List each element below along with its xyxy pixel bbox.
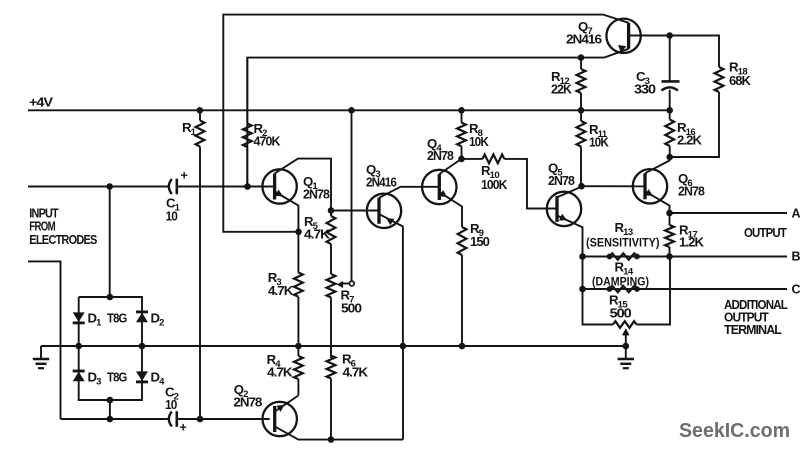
svg-text:+: + [180, 421, 187, 435]
wire R8 top [461, 110, 463, 122]
wire +4V rail [28, 109, 670, 111]
node R9 bottom [459, 343, 466, 350]
node R3-R4 junction [295, 343, 302, 350]
wire Q3 base [331, 210, 379, 212]
wire Q3 collector [379, 187, 439, 198]
wire Q7 collector [603, 15, 628, 23]
svg-text:2.2K: 2.2K [677, 134, 702, 148]
wire R18 bottom [670, 92, 719, 157]
wire R7 bottom to R6 [330, 298, 332, 359]
label R3 [268, 270, 294, 298]
svg-text:2N416: 2N416 [566, 33, 602, 47]
resistor R18 [715, 67, 724, 92]
node Q2 emitter return [400, 343, 407, 350]
node output B junction [666, 253, 673, 260]
svg-text:2N78: 2N78 [678, 185, 705, 199]
label R1 [182, 120, 197, 138]
svg-text:2N78: 2N78 [548, 174, 575, 188]
label Q2 [233, 382, 262, 409]
wire Q3 emitter [379, 214, 403, 346]
wire R4 tails [297, 346, 299, 396]
label R12 [551, 69, 572, 97]
resistor R6 [327, 356, 336, 379]
node C left junction [579, 286, 586, 293]
label INPUT FROM ELECTRODES [29, 207, 97, 247]
arrow Q4 emitter [439, 190, 447, 197]
capacitor C2 [169, 411, 177, 427]
wire output C [583, 288, 788, 290]
label D3 value [107, 371, 127, 385]
node bridge top [107, 294, 114, 301]
svg-text:68K: 68K [729, 74, 751, 88]
node C2-R1 junction [197, 416, 204, 423]
svg-text:150: 150 [470, 235, 490, 249]
label Q3 [366, 162, 397, 190]
svg-text:470K: 470K [254, 135, 281, 149]
label R2 [254, 121, 281, 149]
node R7 wiper top [348, 107, 355, 114]
node bridge bottom [107, 397, 114, 404]
label B [792, 250, 800, 264]
resistor R8 [457, 123, 466, 147]
wire R10 left [462, 158, 483, 160]
diode D2 [136, 312, 148, 322]
label D4 [151, 370, 166, 388]
resistor R3 [294, 273, 303, 297]
node C3 bottom rail [666, 107, 673, 114]
node bridge left mid [75, 343, 82, 350]
label R13 [615, 220, 633, 238]
wire Q1 collector [275, 159, 331, 211]
wire Q4 collector [439, 159, 461, 174]
resistor R13 [610, 253, 638, 259]
potentiometer R7 [327, 274, 336, 298]
svg-text:500: 500 [341, 302, 362, 316]
resistor R5 [327, 216, 336, 244]
label R9 [470, 221, 490, 249]
node R15 ground tap [623, 343, 630, 350]
label Q1 [303, 174, 330, 202]
svg-text:10K: 10K [589, 136, 609, 150]
svg-text:2N78: 2N78 [233, 395, 262, 409]
wire Q6 emitter [645, 191, 670, 213]
label +4V [29, 96, 54, 110]
wire second feedback (Q7 emitter to R2) [247, 58, 604, 185]
label C [792, 283, 800, 297]
svg-text:(SENSITIVITY): (SENSITIVITY) [586, 236, 660, 250]
capacitor C3 [662, 36, 680, 111]
resistor R14 [610, 286, 638, 292]
resistor R4 [294, 356, 303, 379]
label ADDITIONAL OUTPUT TERMINAL [724, 298, 788, 337]
wire R15 left leg [583, 257, 614, 325]
wire top feedback (Q7 collector to Q1 emitter column) [223, 15, 603, 232]
label R15 [609, 293, 632, 321]
label R6 [342, 352, 368, 380]
arrow Q5 emitter [559, 214, 567, 221]
label R10 [481, 163, 507, 192]
svg-text:INPUT: INPUT [29, 207, 59, 221]
node R12 bottom rail [578, 107, 585, 114]
wire bridge bottom tap [109, 400, 111, 419]
wire R9 bottom [461, 255, 463, 346]
wire Q1 emitter [275, 192, 299, 232]
node R6 bottom [328, 436, 335, 443]
wire electrode stub to bottom [28, 261, 61, 419]
wire R12 bottom [580, 93, 582, 110]
wire R16 top [669, 110, 671, 119]
label C2 plus [180, 421, 187, 435]
wire Q2 emitter [275, 426, 404, 439]
svg-text:T8G: T8G [107, 371, 127, 385]
wire Q2 emitter return [402, 346, 404, 440]
wire R7 wiper to +4V [351, 110, 353, 280]
svg-text:A: A [792, 207, 800, 221]
svg-text:1.2K: 1.2K [679, 235, 704, 249]
svg-text:FROM: FROM [29, 220, 55, 234]
diode D1 [73, 312, 85, 323]
node input junction [106, 183, 113, 190]
svg-text:2N416: 2N416 [366, 176, 397, 190]
watermark SeekIC.com [679, 419, 790, 442]
wire R16 bottom [669, 146, 671, 157]
wire R5 column [330, 211, 332, 275]
node bridge bottom tap joint [107, 416, 114, 423]
svg-text:T8G: T8G [107, 312, 127, 326]
wire Q6 collector [645, 157, 670, 173]
svg-text:4.7K: 4.7K [304, 228, 330, 242]
transistor Q1 [262, 169, 296, 203]
svg-text:330: 330 [634, 83, 656, 97]
svg-text:100K: 100K [481, 178, 507, 192]
node Q1 emitter junction [295, 229, 302, 236]
ground right [618, 346, 634, 368]
wire R1 column [199, 110, 201, 419]
resistor R15 [613, 321, 637, 328]
label D1 [88, 311, 103, 329]
svg-text:TERMINAL: TERMINAL [724, 323, 782, 337]
svg-text:SeekIC.com: SeekIC.com [679, 419, 790, 442]
svg-text:10: 10 [165, 398, 177, 412]
label SENSITIVITY [586, 236, 660, 250]
arrow R7 wiper [337, 281, 344, 288]
node bridge right mid [139, 343, 146, 350]
wire Q2 collector (upper lead with arrow) [274, 396, 298, 413]
arrow Q1 emitter [275, 190, 283, 197]
wire R10 to Q5 base [504, 159, 557, 209]
svg-text:10: 10 [166, 210, 178, 224]
ground left [33, 346, 49, 368]
label D1 value [107, 312, 127, 326]
resistor R10 [483, 155, 505, 164]
transistor Q6 [633, 169, 667, 203]
wire Q5 emitter [557, 216, 582, 257]
label D2 [151, 311, 165, 329]
wire R18 branch [670, 36, 719, 68]
wire output B [583, 256, 788, 258]
node R1 top [197, 107, 204, 114]
wire Q7 base [629, 35, 670, 37]
svg-text:4.7K: 4.7K [343, 365, 368, 379]
label R8 [469, 121, 489, 149]
node B left junction [579, 253, 586, 260]
resistor R17 [665, 225, 674, 247]
wire R17 bottom [669, 247, 671, 257]
label D3 [88, 370, 102, 388]
transistor Q7 [606, 19, 640, 53]
label R16 [677, 120, 702, 148]
transistor Q5 [547, 192, 581, 226]
diode D3 [73, 371, 85, 381]
label DAMPING [592, 275, 649, 289]
wire R3 column [297, 232, 299, 346]
resistor R2 [243, 124, 252, 148]
label Q7 [566, 19, 602, 47]
arrow Q6 emitter [645, 189, 653, 196]
wire bottom input bus [61, 418, 270, 420]
node Q1 collector junction [328, 207, 335, 214]
wire Q4 emitter [439, 192, 462, 227]
label C1 plus [181, 169, 188, 183]
arrow Q7 emitter PNP [618, 45, 626, 53]
label Q5 [548, 161, 575, 189]
label R14 [615, 260, 634, 278]
node R13 left [607, 254, 613, 260]
wire R12 top [580, 58, 582, 69]
capacitor C1 [169, 179, 177, 195]
node Q7 base junction [666, 32, 673, 39]
node R13 right [634, 254, 640, 260]
svg-text:500: 500 [610, 306, 632, 320]
node Q4 collector junction [458, 156, 465, 163]
svg-text:C: C [792, 283, 800, 297]
label R7 [341, 288, 363, 316]
node R14 left [607, 286, 613, 292]
label R18 [729, 60, 751, 89]
wire R11 top [580, 110, 582, 121]
svg-text:10K: 10K [469, 135, 489, 149]
wire R8 bottom [461, 146, 463, 159]
svg-text:OUTPUT: OUTPUT [744, 226, 787, 240]
wire output A [670, 212, 788, 214]
wire input line [28, 186, 248, 188]
wire R11 bottom [580, 147, 582, 187]
wire bridge rectangle [79, 297, 142, 400]
svg-text:+4V: +4V [29, 96, 54, 110]
node R2 base junction [244, 183, 251, 190]
node output A junction [666, 210, 673, 217]
label R5 [304, 214, 330, 242]
wire middle ground bus [41, 345, 627, 347]
wire R2 column [246, 58, 248, 187]
arrow Q2 upper lead [276, 405, 284, 412]
label A [792, 207, 800, 221]
svg-text:22K: 22K [551, 83, 572, 97]
svg-text:ELECTRODES: ELECTRODES [29, 233, 97, 247]
wire Q6 base [581, 185, 645, 187]
label OUTPUT [744, 226, 787, 240]
svg-text:(DAMPING): (DAMPING) [592, 275, 649, 289]
wire Q7 emitter [604, 49, 629, 58]
wire R17 top [669, 213, 671, 225]
node Q5 collector junction [578, 183, 585, 190]
svg-text:4.7K: 4.7K [267, 365, 292, 379]
node R12 top [578, 54, 585, 61]
wire input to bridge [109, 187, 111, 298]
svg-text:B: B [792, 250, 800, 264]
wire Q1 base [248, 186, 275, 188]
transistor Q3 [367, 194, 401, 228]
svg-text:2N78: 2N78 [303, 188, 330, 202]
label R17 [679, 223, 704, 250]
label C1 [166, 196, 181, 224]
resistor R1 [196, 121, 205, 147]
wire R7 wiper [340, 283, 349, 285]
label R11 [589, 122, 609, 150]
node R14 right [634, 286, 640, 292]
resistor R9 [458, 227, 467, 255]
node R8 top [458, 107, 465, 114]
label R4 [267, 352, 293, 379]
wire R15 ground tap [622, 328, 630, 346]
wire R6 bottom [330, 379, 332, 440]
transistor Q2 [263, 402, 297, 436]
svg-text:+: + [181, 169, 188, 183]
arrow Q3 emitter PNP [386, 218, 394, 225]
node R16 bottom [666, 154, 673, 161]
resistor R11 [577, 121, 586, 147]
resistor R12 [577, 69, 586, 93]
label Q6 [678, 171, 705, 199]
svg-text:4.7K: 4.7K [268, 284, 293, 298]
wire R15 right leg [637, 257, 671, 325]
resistor R16 [665, 120, 674, 147]
label C3 [634, 69, 656, 97]
label C2 [165, 385, 179, 413]
svg-text:2N78: 2N78 [427, 149, 454, 163]
transistor Q4 [422, 170, 456, 204]
terminal R7 wiper circle [349, 281, 354, 286]
wire Q5 collector [557, 186, 582, 197]
label Q4 [427, 136, 454, 163]
diode D4 [136, 371, 148, 382]
